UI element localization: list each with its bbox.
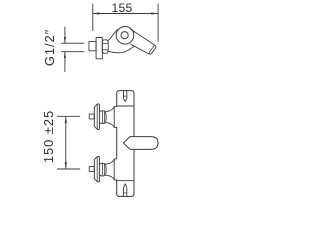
column cross line top — [117, 105, 134, 107]
lever end face inner line — [150, 45, 155, 53]
hex nut facet line bottom — [102, 49, 108, 51]
dimension G1/2 lower arrow — [64, 52, 66, 58]
knob top: grip barrel — [99, 111, 106, 124]
bottom screw slot cross line — [124, 192, 127, 194]
knob top: grip knurl arcs — [102, 111, 105, 123]
svg-text:150 ±25: 150 ±25 — [41, 110, 56, 163]
knob top: stem — [89, 114, 94, 119]
knob top: bell outline — [106, 106, 116, 127]
hex nut side view — [102, 40, 108, 54]
union pipe end rect — [89, 42, 96, 51]
bottom screw slot — [124, 184, 127, 197]
column body front view — [117, 91, 134, 197]
dimension 155 extension line right — [157, 4, 159, 42]
knob top: bell rim — [113, 107, 115, 128]
knob top: disc face line — [96, 104, 98, 129]
knob bottom: bell outline — [106, 159, 116, 180]
mixer body top outline — [108, 30, 117, 41]
dimension G1/2 lower shaft — [64, 52, 66, 72]
knob bottom: disc face line — [96, 157, 98, 182]
wall escutcheon rect — [96, 38, 102, 59]
G1/2 pipe stub bottom line — [62, 51, 85, 53]
G1/2 pipe stub top line — [62, 42, 85, 44]
top screw slot — [124, 91, 127, 102]
top screw slot cross line — [124, 95, 127, 97]
dimension G1/2 upper shaft — [64, 27, 66, 43]
dimension 155 arrow right — [151, 12, 158, 14]
dimension 155 arrow left — [93, 12, 100, 14]
knob bottom: grip barrel — [99, 163, 106, 176]
dimension G1/2 upper arrow — [64, 37, 66, 43]
cartridge outer circle — [116, 27, 134, 45]
lever handle top edge — [130, 29, 156, 54]
spout front view — [123, 137, 158, 150]
mixer body bottom outline — [108, 46, 134, 53]
cartridge inner circle — [121, 32, 128, 39]
svg-text:G1/2″: G1/2″ — [42, 29, 57, 66]
dimension 150 extension line top — [57, 115, 80, 117]
dimension 150 extension line bottom — [57, 168, 80, 170]
knob top: disc — [94, 104, 99, 130]
hex nut facet line top — [102, 42, 108, 44]
knob bottom: stem — [89, 167, 94, 172]
dimension 150 arrow bottom — [65, 162, 67, 169]
dimension 155 line — [93, 13, 158, 15]
knob bottom: disc — [94, 156, 99, 182]
dimension 150 arrow top — [65, 116, 67, 123]
svg-text:155: 155 — [112, 1, 133, 15]
dimension 150 line — [65, 116, 67, 169]
dimension 155 extension line left — [92, 4, 94, 31]
column cross line bottom — [117, 180, 134, 182]
knob bottom: bell rim — [113, 159, 115, 180]
knob bottom: grip knurl arcs — [102, 163, 105, 175]
